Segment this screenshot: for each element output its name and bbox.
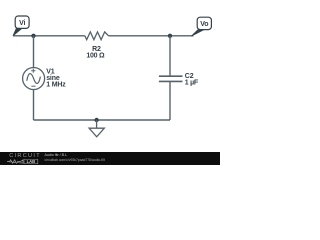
flag Vo (191, 17, 211, 36)
wire right vertical lower (C2 bottom plate to bottom rail) (169, 81, 171, 120)
CircuitLab logo row: wire-resistor-LAB (7, 159, 39, 164)
voltage source V1 (circle with sine) (23, 68, 45, 90)
svg-text:1 MHz: 1 MHz (46, 82, 66, 89)
CircuitLab logo wordmark CIRCUIT (9, 154, 41, 160)
wire top-right segment (R2 right terminal to Vo node) (109, 35, 194, 37)
resistor R2 zigzag (85, 32, 109, 40)
svg-text:LAB: LAB (27, 159, 36, 164)
footer url text (45, 159, 105, 162)
svg-text:Vo: Vo (200, 21, 208, 28)
ground symbol (89, 120, 104, 137)
wire right vertical upper (node to C2 top plate) (169, 36, 171, 76)
junction dot at Vi/V1 node (31, 34, 35, 38)
svg-text:1 µF: 1 µF (185, 79, 199, 86)
footer title text (45, 154, 68, 158)
wire top-left segment (Vi node to R2 left terminal) (13, 35, 85, 37)
footer bar (0, 152, 220, 165)
flag Vi (13, 16, 29, 36)
wire left vertical lower (V1 bottom to bottom rail) (33, 90, 35, 121)
capacitor C2 plates (159, 76, 183, 81)
junction dot at Vo/C2 node (168, 34, 172, 38)
svg-text:100 Ω: 100 Ω (86, 52, 105, 59)
junction dot at ground node (94, 118, 98, 122)
svg-text:Vi: Vi (19, 20, 25, 27)
wire left vertical upper (node to V1 top) (33, 36, 35, 68)
wire bottom rail (34, 119, 171, 121)
